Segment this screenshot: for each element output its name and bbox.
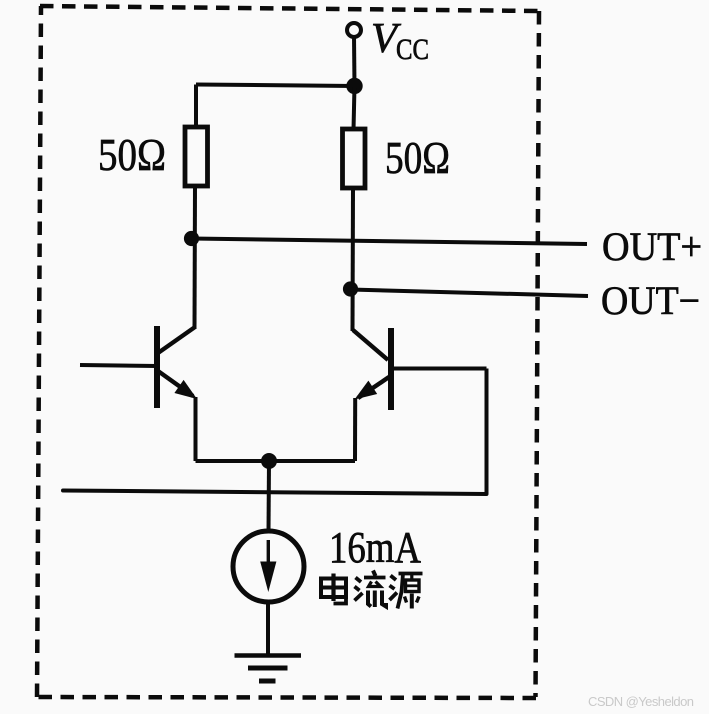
svg-text:OUT+: OUT+: [602, 224, 702, 269]
wire left branch top: [194, 85, 198, 129]
Q2 base lead: [391, 367, 487, 371]
wire Q2 emitter to tail: [269, 459, 355, 463]
label VCC: [371, 16, 429, 66]
wire current source to ground: [266, 601, 270, 657]
current source arrow: [267, 540, 270, 585]
Q1 emitter arrow: [174, 380, 197, 399]
VCC terminal: [347, 23, 361, 37]
char dian: [321, 574, 346, 604]
svg-text:CC: CC: [396, 33, 429, 66]
node tail junction: [261, 453, 277, 469]
wire tail to current source: [267, 461, 272, 532]
Q1 emitter diagonal: [158, 371, 193, 396]
Q2 emitter diagonal: [358, 377, 389, 398]
resistor R2 50ohm right: [343, 129, 366, 188]
node OUT-: [343, 281, 358, 296]
resistor R1 50ohm left: [185, 127, 208, 186]
svg-text:50Ω: 50Ω: [98, 130, 166, 180]
label dianliuyuan (current source, CJK drawn as vector strokes): [321, 571, 423, 609]
wire VCC to rail: [352, 36, 357, 86]
Q2 base bar: [388, 328, 394, 410]
transistor Q2 (right): [353, 328, 487, 410]
wire Q1 emitter down: [194, 397, 198, 461]
char liu: [355, 571, 387, 608]
wire top rail: [196, 85, 355, 87]
svg-text:50Ω: 50Ω: [385, 133, 450, 183]
current source I1 circle: [233, 531, 304, 602]
char yuan: [390, 574, 423, 609]
wire right branch mid: [351, 188, 356, 331]
svg-text:CSDN @Yesheldon: CSDN @Yesheldon: [588, 694, 694, 709]
dashed border frame: [37, 6, 539, 698]
Q1 collector diagonal: [158, 327, 195, 353]
wire Q2 base right vertical: [485, 369, 489, 495]
Q1 base lead: [80, 365, 157, 366]
ground: [235, 656, 302, 682]
wire left branch mid: [193, 186, 198, 329]
Q2 collector diagonal: [353, 330, 388, 360]
Q2 emitter arrow: [355, 381, 378, 400]
transistor Q1 (left): [80, 326, 195, 408]
wire OUT+: [192, 239, 588, 245]
node OUT+: [184, 231, 199, 246]
wire Q1 emitter to tail: [196, 459, 270, 463]
svg-text:16mA: 16mA: [329, 523, 421, 572]
wire Q2 emitter down: [353, 398, 357, 461]
svg-text:OUT−: OUT−: [601, 278, 700, 323]
node junction at VCC rail: [346, 78, 362, 94]
wire bottom return line: [63, 491, 487, 495]
Q1 base bar: [154, 326, 160, 408]
wire right branch top: [354, 86, 355, 130]
wire OUT-: [351, 290, 589, 297]
